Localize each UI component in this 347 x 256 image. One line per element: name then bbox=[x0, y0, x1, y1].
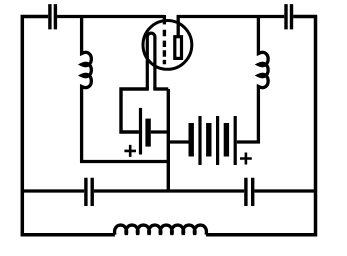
capacitor C1 (top-left, plates) bbox=[50, 4, 56, 29]
wire: B battery left lead from middle node bbox=[168, 140, 188, 143]
label: + of battery B1 bbox=[124, 145, 136, 157]
capacitor C4 (bottom-right, plates) bbox=[246, 178, 253, 206]
wire: mid-bottom bus left segment bbox=[22, 189, 84, 192]
wire: top-left outer loop (left side + bottom-left) bbox=[22, 17, 115, 235]
label: + of battery B2 bbox=[240, 153, 252, 165]
wire: grid lead (solid stub into tube) bbox=[163, 15, 166, 24]
wire: B1 right lead to middle node bbox=[151, 130, 169, 133]
wire: top wire from C1 to grid lead corner bbox=[57, 15, 164, 18]
inductor L2 lead from top wire, coil (bulging left), down to B battery + terminal bbox=[237, 17, 268, 143]
grid circuit box: top-right segment to middle node bbox=[153, 87, 168, 90]
battery B2 (plate supply): thin long plates bbox=[200, 116, 235, 165]
wire: middle vertical node (cathode return) bbox=[167, 89, 170, 191]
capacitor C2 (top-right, plates) bbox=[286, 4, 292, 29]
wire: mid-bottom bus centre segment bbox=[94, 189, 244, 192]
wire: mid-bottom bus right segment bbox=[254, 189, 315, 192]
battery B2 (plate supply): thick short plates bbox=[191, 123, 226, 157]
wire: plate lead up to top-right wire bbox=[178, 17, 284, 37]
inductor L3 (bottom coil, 8 arches) bbox=[115, 225, 207, 235]
grid circuit box: top-left segment + left vertical + lead to C battery bbox=[121, 89, 149, 132]
battery B1 (grid bias): short thick plate (-) bbox=[145, 119, 150, 147]
wire: outer loop right side + bottom-right bbox=[206, 17, 315, 235]
inductor L1 lead from top wire, coil, down to corner and wire to middle node bbox=[82, 17, 169, 162]
vacuum tube V1: grid (dashed line) bbox=[163, 30, 166, 64]
battery B1 (grid bias): long plate (+) bbox=[139, 108, 142, 155]
capacitor C3 (bottom-left, plates) bbox=[86, 178, 92, 206]
vacuum tube V1: envelope circle bbox=[143, 21, 192, 70]
vacuum tube V1: filament (hairpin cathode), legs down to grid-circuit box bbox=[147, 33, 155, 89]
vacuum tube V1: plate (anode rectangle) bbox=[175, 37, 182, 59]
